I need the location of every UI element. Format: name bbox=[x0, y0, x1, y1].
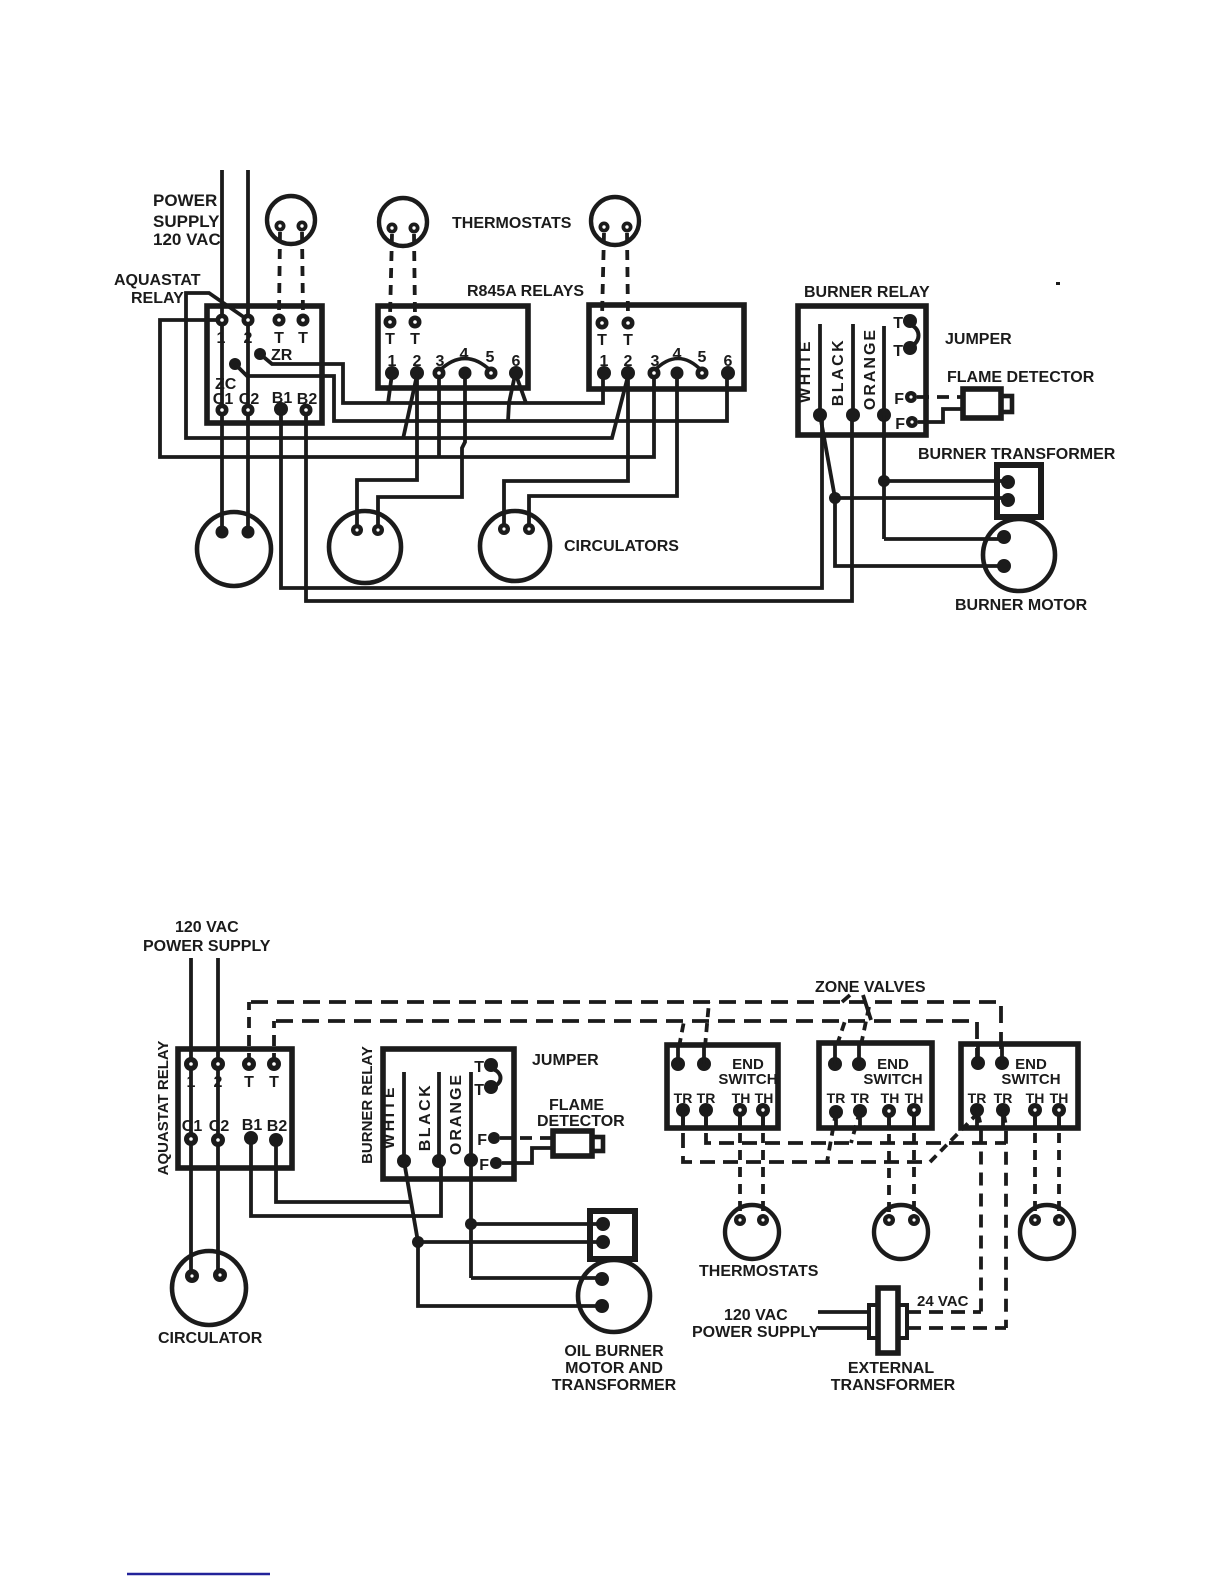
wire white diagonal to junction bbox=[820, 415, 835, 498]
terminal relay2 6 bbox=[721, 366, 735, 380]
terminal pinholes (white centers) bbox=[189, 224, 1061, 1277]
svg-text:F: F bbox=[895, 416, 905, 433]
wire B2 to burner relay black lead bbox=[306, 410, 852, 601]
node junction orange (bottom) bbox=[465, 1218, 477, 1230]
svg-text:T: T bbox=[597, 332, 607, 349]
footer rule bbox=[127, 1573, 270, 1576]
circulator 3 bbox=[480, 511, 550, 581]
wire dashed riser es2 left to rail B bbox=[837, 1021, 845, 1045]
svg-text:FLAME DETECTOR: FLAME DETECTOR bbox=[947, 369, 1095, 386]
terminal baq B2 bbox=[269, 1133, 283, 1147]
labels es3 TR TR TH TH bbox=[968, 1090, 1069, 1106]
labels baq 1 2 T T bbox=[187, 1074, 280, 1091]
svg-text:T: T bbox=[474, 1082, 484, 1099]
svg-text:R845A RELAYS: R845A RELAYS bbox=[467, 283, 584, 300]
wire aquastat terminal1 loop around left to relay2 terminal 3 bbox=[160, 320, 654, 457]
wire es2 TR2 slant to bus1 bbox=[851, 1111, 860, 1143]
terminal aquastat 1 bbox=[216, 314, 229, 327]
svg-text:120 VAC: 120 VAC bbox=[153, 230, 221, 249]
label 120 VAC POWER SUPPLY (bottom left) bbox=[143, 919, 271, 955]
end switch box 1 bbox=[667, 1045, 778, 1128]
labels aquastat top terminals 1 2 T T bbox=[217, 330, 309, 347]
node junction white bbox=[829, 492, 841, 504]
terminal aquastat C2 bbox=[242, 404, 255, 417]
circulator 1 bbox=[197, 512, 271, 586]
lead ORANGE (bottom) bbox=[469, 1072, 473, 1160]
wire dashed F1 to flame detector bbox=[917, 395, 961, 399]
terminal burner relay T1 (top) bbox=[903, 314, 917, 328]
terminal relay1 5 bbox=[485, 367, 498, 380]
wire relay1 terminal1 diagonal tap bbox=[388, 374, 392, 403]
svg-text:120 VAC: 120 VAC bbox=[175, 919, 239, 936]
svg-text:BURNER RELAY: BURNER RELAY bbox=[359, 1046, 376, 1164]
terminal relay2 4 bbox=[671, 367, 684, 380]
pin burner transformer bottom bbox=[1001, 493, 1015, 507]
svg-text:POWER: POWER bbox=[153, 191, 217, 210]
wire relay1 terminal2 diagonal tap bbox=[403, 375, 417, 439]
svg-text:BLACK: BLACK bbox=[830, 338, 847, 407]
terminal baq B1 bbox=[244, 1131, 258, 1145]
lead WHITE (top burner relay) bbox=[818, 324, 822, 415]
terminal baq C2 bbox=[211, 1133, 225, 1147]
labels END SWITCH 1 bbox=[718, 1056, 777, 1088]
terminal es3 top left bbox=[971, 1056, 985, 1070]
svg-text:T: T bbox=[298, 330, 308, 347]
svg-text:5: 5 bbox=[486, 349, 495, 366]
wire dashed riser es2 right to rail A bbox=[861, 1002, 870, 1045]
svg-text:T: T bbox=[893, 315, 903, 332]
wire es2 TR1 slant to bus2 bbox=[827, 1112, 836, 1162]
terminal es2 top left bbox=[828, 1057, 842, 1071]
label EXTERNAL TRANSFORMER bbox=[831, 1360, 956, 1394]
jumper arc relay2 terminals 3-5 bbox=[654, 359, 702, 372]
external transformer bbox=[869, 1288, 907, 1353]
svg-text:SUPPLY: SUPPLY bbox=[153, 212, 220, 231]
wire thermostat1 dashed drops to aquastat T T bbox=[279, 232, 303, 315]
terminal relay2 T left bbox=[596, 317, 609, 330]
wire dashed zone rail B bbox=[276, 1021, 977, 1057]
terminal baq T left bbox=[242, 1057, 256, 1071]
terminal relay2 5 bbox=[696, 367, 709, 380]
svg-text:TH: TH bbox=[881, 1090, 900, 1106]
wire stub es2 bottom dots bbox=[836, 1110, 914, 1126]
svg-text:24 VAC: 24 VAC bbox=[917, 1293, 969, 1310]
terminal relay2 2 bbox=[621, 366, 635, 380]
svg-text:ORANGE: ORANGE bbox=[862, 328, 879, 410]
wire dashed TH drops es2 to thermostat b2 bbox=[887, 1117, 891, 1212]
wire dashed F1 to flame detector (bottom) bbox=[500, 1136, 552, 1140]
wire F2 to flame detector bbox=[918, 409, 961, 422]
wire relay1 terminal4 to circulator2 right bbox=[378, 374, 465, 528]
thermostat TSTAT2 bbox=[379, 198, 427, 246]
wire stub es1 top dots bbox=[678, 1047, 704, 1064]
lead ORANGE (top burner relay) bbox=[882, 326, 886, 415]
svg-text:T: T bbox=[623, 332, 633, 349]
wire dashed es3 TR2 down to external transformer bbox=[1003, 1110, 1006, 1328]
wire junction to burner motor bottom pin bbox=[835, 498, 1004, 566]
terminal bbr T2 bbox=[484, 1080, 498, 1094]
labels END SWITCH 3 bbox=[1001, 1056, 1060, 1088]
wire dashed riser aquastat T1 to rail A bbox=[247, 1002, 251, 1064]
svg-text:DETECTOR: DETECTOR bbox=[537, 1113, 625, 1130]
svg-text:FLAME: FLAME bbox=[549, 1097, 604, 1114]
wire relay2 terminal2 to circulator3 left bbox=[504, 374, 628, 529]
terminal burner relay F2 (top) bbox=[906, 416, 918, 428]
svg-text:SWITCH: SWITCH bbox=[863, 1071, 922, 1088]
wire junction to burner transformer bottom pin bbox=[835, 496, 1008, 500]
wire dashed bus2 TR1 chain bbox=[683, 1110, 930, 1162]
wire B2 to bottom white lead bbox=[276, 1140, 412, 1202]
relay box R845A relay 2 bbox=[589, 305, 744, 389]
svg-text:F: F bbox=[894, 391, 904, 408]
terminal relay1 T left bbox=[384, 316, 397, 329]
svg-text:2: 2 bbox=[214, 1074, 223, 1091]
svg-text:AQUASTAT RELAY: AQUASTAT RELAY bbox=[155, 1041, 172, 1176]
labels es2 TR TR TH TH bbox=[827, 1090, 924, 1106]
label POWER SUPPLY 120 VAC bbox=[153, 191, 221, 249]
svg-text:CIRCULATORS: CIRCULATORS bbox=[564, 538, 679, 555]
terminal es3 TR1 bbox=[970, 1103, 984, 1117]
svg-text:B2: B2 bbox=[267, 1118, 288, 1135]
svg-text:120 VAC: 120 VAC bbox=[724, 1307, 788, 1324]
svg-text:ORANGE: ORANGE bbox=[448, 1073, 465, 1155]
wire white diagonal to junction (bottom) bbox=[404, 1161, 418, 1242]
terminal burner relay T2 (top) bbox=[903, 341, 917, 355]
labels WHITE BLACK ORANGE (bottom, rotated) bbox=[381, 1073, 465, 1155]
labels relay1 1-6 bbox=[388, 346, 521, 370]
wire dashed TH drops es3 to thermostat b3 bbox=[1033, 1116, 1037, 1212]
svg-text:T: T bbox=[893, 343, 903, 360]
svg-text:1: 1 bbox=[187, 1074, 196, 1091]
wire orange junction to burner transformer top pin bbox=[884, 479, 1008, 483]
wire B1 to burner relay white lead bbox=[281, 409, 822, 588]
wire F2 to flame detector (bottom) bbox=[502, 1148, 552, 1163]
terminal es3 TH2 bbox=[1052, 1103, 1066, 1117]
wire B1 to bottom black lead bbox=[251, 1138, 441, 1216]
terminal es1 TR2 bbox=[699, 1103, 713, 1117]
wire supply to external transformer top bbox=[818, 1310, 869, 1314]
svg-text:BURNER MOTOR: BURNER MOTOR bbox=[955, 597, 1088, 614]
wire junction to oil transformer bottom pin bbox=[418, 1240, 603, 1244]
terminal aquastat T (left) bbox=[273, 314, 286, 327]
terminal baq 1 bbox=[184, 1057, 198, 1071]
jumper arc burner relay T-T bbox=[911, 325, 919, 346]
svg-text:T: T bbox=[474, 1059, 484, 1076]
terminal aquastat 2 bbox=[242, 314, 255, 327]
oil burner transformer box bbox=[590, 1211, 635, 1259]
terminal relay1 4 bbox=[459, 367, 472, 380]
terminal baq 2 bbox=[211, 1057, 225, 1071]
terminal es2 top right bbox=[852, 1057, 866, 1071]
jumper arc bbr T-T bbox=[493, 1069, 501, 1087]
svg-text:TRANSFORMER: TRANSFORMER bbox=[552, 1377, 677, 1394]
svg-text:T: T bbox=[269, 1074, 279, 1091]
thermostat b1 bbox=[725, 1205, 779, 1259]
svg-text:BURNER RELAY: BURNER RELAY bbox=[804, 284, 930, 301]
wire power line L1 into terminal 1 and C1 to circulator 1 bbox=[220, 170, 224, 533]
svg-text:TRANSFORMER: TRANSFORMER bbox=[831, 1377, 956, 1394]
labels F F bbox=[894, 391, 905, 433]
wire dashed zone rail A bbox=[251, 1002, 1001, 1057]
svg-text:SWITCH: SWITCH bbox=[718, 1071, 777, 1088]
stray speck bbox=[1056, 282, 1060, 285]
svg-text:C2: C2 bbox=[209, 1118, 230, 1135]
terminal es2 TH2 bbox=[907, 1103, 921, 1117]
svg-text:T: T bbox=[274, 330, 284, 347]
labels T T bbox=[893, 315, 903, 360]
svg-text:RELAY: RELAY bbox=[131, 290, 184, 307]
terminal es3 TH1 bbox=[1028, 1103, 1042, 1117]
wire stub es3 top dots bbox=[978, 1046, 1002, 1063]
wire dashed 24vac top output bbox=[907, 1310, 981, 1314]
node junction orange bbox=[878, 475, 890, 487]
lead WHITE (bottom) bbox=[402, 1072, 406, 1161]
terminal aquastat T (right) bbox=[297, 314, 310, 327]
jumper arc relay1 terminals 3-5 bbox=[439, 359, 491, 372]
wire relay1 terminal3 tap to loop bbox=[437, 374, 441, 457]
svg-text:TR: TR bbox=[827, 1090, 846, 1106]
wire dashed riser aquastat T2 to rail B bbox=[272, 1021, 276, 1064]
svg-text:POWER SUPPLY: POWER SUPPLY bbox=[692, 1324, 820, 1341]
svg-text:5: 5 bbox=[698, 349, 707, 366]
thermostat TSTAT1 bbox=[267, 196, 315, 244]
terminal burner relay F1 (top) bbox=[905, 391, 917, 403]
svg-text:CIRCULATOR: CIRCULATOR bbox=[158, 1330, 263, 1347]
terminal es2 TR2 bbox=[853, 1104, 867, 1118]
terminal es1 TH2 bbox=[756, 1103, 770, 1117]
op box aquastat relay (bottom) bbox=[178, 1049, 292, 1168]
svg-text:WHITE: WHITE bbox=[381, 1085, 398, 1149]
wire supply to external transformer bottom bbox=[818, 1326, 869, 1330]
wire junction to oil motor bottom pin bbox=[418, 1242, 602, 1306]
wire orange down (bottom) bbox=[469, 1160, 473, 1278]
terminal es1 TH1 bbox=[733, 1103, 747, 1117]
label AQUASTAT RELAY with leader bbox=[114, 272, 201, 307]
terminal es3 top right bbox=[995, 1056, 1009, 1070]
pin oil transformer top bbox=[596, 1217, 610, 1231]
labels relay1 T T bbox=[385, 331, 420, 348]
end switch box 2 bbox=[819, 1043, 932, 1128]
labels WHITE BLACK ORANGE (top, rotated) bbox=[797, 328, 879, 410]
wire relay1 terminal6 left leg bbox=[508, 375, 515, 421]
svg-text:BURNER TRANSFORMER: BURNER TRANSFORMER bbox=[918, 446, 1116, 463]
labels END SWITCH 2 bbox=[863, 1056, 922, 1088]
burner transformer box bbox=[997, 465, 1041, 517]
wire dashed riser es1 left to rail B bbox=[679, 1021, 684, 1047]
label 120 VAC POWER SUPPLY (bottom right) bbox=[692, 1307, 820, 1341]
labels aquastat bottom terminals C1 C2 B1 B2 bbox=[213, 390, 318, 408]
terminal es2 TH1 bbox=[882, 1104, 896, 1118]
svg-text:JUMPER: JUMPER bbox=[532, 1052, 599, 1069]
thermostat b2 bbox=[874, 1205, 928, 1259]
svg-text:F: F bbox=[479, 1157, 489, 1174]
wire orange to burner motor top pin bbox=[884, 537, 1004, 541]
wire power L1 through aquastat to circulator bbox=[189, 958, 193, 1276]
pin burner transformer top bbox=[1001, 475, 1015, 489]
wire orange to oil motor top pin bbox=[471, 1276, 602, 1280]
terminal bbr T1 bbox=[484, 1058, 498, 1072]
wire relay1 terminal6 right leg bbox=[516, 375, 526, 403]
label FLAME DETECTOR (bottom) bbox=[537, 1097, 625, 1130]
wire thermostat3 dashed drops to relay2 T T bbox=[602, 233, 628, 318]
wire dashed riser es1 right to rail A bbox=[705, 1002, 709, 1047]
circulator (bottom) bbox=[172, 1251, 246, 1325]
terminal aquastat ZR bbox=[254, 348, 266, 360]
terminal es1 top right bbox=[697, 1057, 711, 1071]
wire orange junction to oil transformer top pin bbox=[471, 1222, 603, 1226]
oil burner motor bbox=[578, 1260, 650, 1332]
terminal baq C1 bbox=[184, 1132, 198, 1146]
terminal relay2 3 bbox=[648, 367, 661, 380]
svg-text:TR: TR bbox=[851, 1090, 870, 1106]
labels es1 TR TR TH TH bbox=[674, 1090, 774, 1106]
lead BLACK (bottom) bbox=[437, 1072, 441, 1161]
pin oil transformer bottom bbox=[596, 1235, 610, 1249]
svg-text:EXTERNAL: EXTERNAL bbox=[848, 1360, 934, 1377]
terminal aquastat B2 bbox=[300, 404, 313, 417]
labels bbr F F bbox=[477, 1132, 489, 1174]
svg-text:THERMOSTATS: THERMOSTATS bbox=[452, 215, 572, 232]
wire aquastat terminal2 loop around left to relay terminals 2 bbox=[186, 293, 628, 438]
wire relay2 terminal4 to circulator3 right bbox=[529, 374, 677, 529]
terminal relay2 1 bbox=[597, 366, 611, 380]
wire stub es1 bottom dots bbox=[683, 1110, 763, 1126]
flame detector (top) bbox=[963, 389, 1001, 418]
terminal relay1 2 bbox=[410, 366, 424, 380]
terminal relay1 3 bbox=[433, 367, 446, 380]
svg-text:JUMPER: JUMPER bbox=[945, 331, 1012, 348]
svg-text:2: 2 bbox=[244, 330, 253, 347]
svg-text:WHITE: WHITE bbox=[797, 339, 814, 403]
relay box R845A relay 1 bbox=[378, 306, 528, 388]
svg-text:T: T bbox=[410, 331, 420, 348]
svg-text:BLACK: BLACK bbox=[417, 1083, 434, 1152]
wire dashed es3 TR1 down to external transformer bbox=[977, 1110, 981, 1312]
wire es3 TR1 slant from bus2 bbox=[930, 1115, 976, 1162]
svg-text:ZONE VALVES: ZONE VALVES bbox=[815, 979, 926, 996]
wire dashed TH drops es1 to thermostat b1 bbox=[738, 1116, 742, 1212]
wire power L2 through aquastat to circulator bbox=[216, 958, 220, 1275]
wire dashed 24vac bottom output bbox=[907, 1326, 1006, 1330]
wire stub es2 top dots bbox=[835, 1045, 859, 1064]
svg-text:1: 1 bbox=[217, 330, 226, 347]
wire thermostat2 dashed drops to relay1 T T bbox=[390, 234, 415, 317]
flame detector (bottom) bbox=[553, 1131, 592, 1156]
label OIL BURNER MOTOR AND TRANSFORMER bbox=[552, 1343, 677, 1394]
lead BLACK (top burner relay) bbox=[851, 324, 855, 415]
wire stub es3 bottom dots bbox=[977, 1110, 1059, 1126]
svg-text:ZR: ZR bbox=[271, 347, 293, 364]
svg-text:SWITCH: SWITCH bbox=[1001, 1071, 1060, 1088]
terminal relay1 1 bbox=[385, 366, 399, 380]
relay box burner relay (bottom) bbox=[383, 1049, 514, 1179]
terminal bbr F1 bbox=[488, 1132, 500, 1144]
terminal es2 TR1 bbox=[829, 1105, 843, 1119]
end switch box 3 bbox=[961, 1044, 1078, 1128]
thermostat b3 bbox=[1020, 1205, 1074, 1259]
wire relay1 terminal2 to circulator2 left bbox=[357, 374, 417, 530]
svg-text:T: T bbox=[385, 331, 395, 348]
svg-text:POWER SUPPLY: POWER SUPPLY bbox=[143, 938, 271, 955]
svg-text:AQUASTAT: AQUASTAT bbox=[114, 272, 201, 289]
terminal bbr F2 bbox=[490, 1157, 502, 1169]
svg-text:THERMOSTATS: THERMOSTATS bbox=[699, 1263, 819, 1280]
labels relay2 1-6 bbox=[600, 346, 733, 370]
labels relay2 T T bbox=[597, 332, 633, 349]
op box aquastat relay (top) bbox=[207, 306, 322, 423]
terminal es3 TR2 bbox=[996, 1103, 1010, 1117]
burner motor bbox=[983, 519, 1055, 591]
terminal es1 top left bbox=[671, 1057, 685, 1071]
relay box burner relay (top) bbox=[798, 306, 926, 435]
terminal aquastat ZC bbox=[229, 358, 241, 370]
node junction white (bottom) bbox=[412, 1236, 424, 1248]
circulator 2 bbox=[329, 511, 401, 583]
terminal baq T right bbox=[267, 1057, 281, 1071]
leader lines zone valves bbox=[842, 995, 850, 1002]
wire ZR net to relay terminals 1 bbox=[260, 354, 603, 403]
svg-text:F: F bbox=[477, 1132, 487, 1149]
wire power line L2 into terminal 2 and C2 to circulator 1 bbox=[246, 170, 250, 533]
wire orange down bbox=[882, 415, 886, 539]
terminal relay1 6 bbox=[509, 366, 523, 380]
terminal es1 TR1 bbox=[676, 1103, 690, 1117]
svg-text:OIL BURNER: OIL BURNER bbox=[564, 1343, 664, 1360]
svg-text:MOTOR AND: MOTOR AND bbox=[565, 1360, 663, 1377]
terminal aquastat C1 bbox=[216, 404, 229, 417]
labels baq C1 C2 B1 B2 bbox=[182, 1117, 288, 1135]
wire ZC net to relay terminals 6 bbox=[235, 364, 727, 421]
svg-text:T: T bbox=[244, 1074, 254, 1091]
terminal relay1 T right bbox=[409, 316, 422, 329]
wire dashed bus1 TR2 chain bbox=[706, 1110, 1006, 1143]
labels bbr T T bbox=[474, 1059, 484, 1099]
terminal relay2 T right bbox=[622, 317, 635, 330]
thermostat TSTAT3 bbox=[591, 197, 639, 245]
terminal aquastat B1 bbox=[274, 402, 288, 416]
